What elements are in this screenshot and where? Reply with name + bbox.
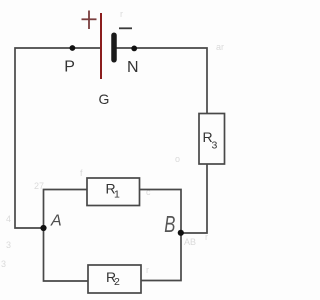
svg-text:r: r bbox=[146, 265, 149, 275]
svg-text:N: N bbox=[127, 59, 139, 76]
svg-text:AB: AB bbox=[184, 237, 196, 247]
svg-text:4: 4 bbox=[6, 214, 11, 224]
svg-text:27: 27 bbox=[34, 181, 44, 191]
svg-text:B: B bbox=[164, 212, 175, 237]
svg-text:G: G bbox=[99, 91, 110, 107]
svg-text:3: 3 bbox=[6, 240, 11, 250]
svg-text:ar: ar bbox=[216, 42, 224, 52]
svg-text:1: 1 bbox=[114, 189, 120, 201]
svg-text:2: 2 bbox=[114, 276, 120, 288]
svg-text:r: r bbox=[120, 9, 123, 19]
svg-text:A: A bbox=[50, 213, 62, 230]
svg-text:3: 3 bbox=[1, 259, 6, 269]
svg-text:3: 3 bbox=[212, 140, 218, 152]
svg-text:o: o bbox=[175, 154, 180, 164]
svg-text:c: c bbox=[146, 187, 151, 197]
svg-text:P: P bbox=[64, 59, 75, 76]
